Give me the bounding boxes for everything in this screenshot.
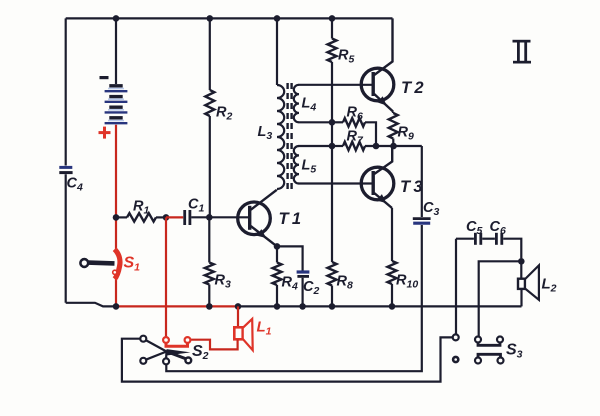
node R2 top	[207, 15, 214, 22]
resistor R5	[331, 18, 333, 38]
wire ground rail (right section)	[238, 305, 522, 307]
wire battery positive (red) down to S1 and ground rail	[115, 125, 117, 250]
capacitor C2	[297, 272, 310, 276]
node rail R3	[206, 303, 213, 310]
loudspeaker L1	[234, 319, 252, 350]
battery B1	[105, 18, 128, 123]
node rail C2	[299, 303, 306, 310]
capacitor C3	[413, 219, 431, 224]
wire R7 node to C3 branch	[421, 146, 423, 217]
transistor T3	[361, 146, 394, 208]
resistor R7	[332, 145, 343, 147]
wire node down to R8	[331, 146, 333, 262]
wire S2 to S3 lower loop	[122, 337, 453, 381]
switch S3	[453, 334, 504, 363]
node rail R4	[274, 303, 281, 310]
node L4/R5/R6 junction	[329, 119, 336, 126]
wire ground rail (red section)	[116, 305, 238, 307]
loudspeaker L2	[518, 261, 539, 306]
inductor L4 secondary winding	[294, 85, 299, 123]
node T1 emitter junction	[274, 243, 281, 250]
wire left branch vertical	[65, 18, 67, 165]
node rail battery	[113, 303, 120, 310]
resistor R4	[276, 246, 278, 262]
battery plus terminal	[99, 127, 111, 139]
node battery top	[113, 15, 120, 22]
svg-text:T 1: T 1	[279, 210, 302, 228]
resistor R1	[116, 216, 127, 218]
wire L1 bottom to S2 wiper (red)	[191, 340, 238, 350]
wire top supply rail	[66, 17, 393, 19]
node R6/R7 junction	[373, 143, 380, 150]
inductor L3 primary winding	[276, 18, 278, 85]
svg-text:T 3: T 3	[400, 178, 423, 196]
transistor T1	[238, 190, 277, 247]
wire C5 branch vertical	[455, 239, 457, 335]
schematic number II	[513, 40, 532, 64]
node R1 left junction	[113, 214, 120, 221]
node rail R10	[389, 303, 396, 310]
wire C5-C6 branch top	[456, 238, 474, 240]
capacitor C1	[185, 210, 190, 225]
node L5/R7 junction	[329, 143, 336, 150]
resistor R10	[388, 261, 397, 284]
wire junction down to S2 (red)	[165, 217, 167, 337]
switch S1	[80, 249, 120, 279]
resistor R3	[205, 263, 214, 285]
wire emitter node to C2	[277, 246, 303, 270]
transformer core	[288, 83, 292, 191]
wire node down to L5/R7 node	[331, 122, 333, 146]
wire R5 bottom to L4 node	[331, 62, 333, 122]
node R9 bottom junction	[390, 143, 397, 150]
wire T3 emitter to R10	[391, 208, 393, 261]
wire C1 to T1 base	[191, 216, 250, 218]
inductor L5 secondary winding	[294, 146, 299, 184]
node rail L1	[235, 303, 242, 310]
node R5 top	[329, 15, 336, 22]
wire L5 top to R7	[299, 145, 332, 147]
capacitor C5	[475, 233, 480, 245]
resistor R6	[332, 121, 343, 123]
node L3 top	[274, 15, 281, 22]
node R1/C1 junction	[163, 214, 170, 221]
battery minus terminal	[100, 76, 109, 79]
resistor R8	[328, 262, 337, 286]
wire L4 bottom to R5/R6 node	[299, 121, 332, 123]
capacitor C4	[59, 167, 72, 172]
node rail R8	[329, 303, 336, 310]
wire L2 node left and down to S3	[479, 261, 522, 336]
node base/R2/R3 junction	[206, 214, 213, 221]
switch S2	[140, 336, 191, 365]
node L2 top junction	[518, 258, 525, 265]
resistor R9	[392, 112, 394, 114]
transistor T2	[361, 18, 394, 111]
svg-text:T 2: T 2	[401, 79, 424, 97]
resistor R2	[209, 18, 211, 90]
wire L5 bottom to T3 base	[299, 182, 372, 184]
wire C3 bottom down to S2 bottom contact	[166, 225, 421, 371]
wire junction to C1 (red)	[166, 216, 183, 218]
wire rail dot down to L1 (red)	[237, 306, 239, 327]
wire bottom-left rail segment	[66, 303, 116, 307]
wire L4 top to T2 base	[299, 84, 372, 86]
capacitor C6	[496, 233, 501, 245]
